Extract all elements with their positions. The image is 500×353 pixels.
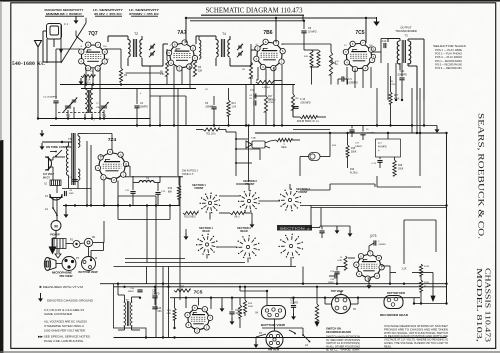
svg-text:READ.: READ. [384, 345, 392, 348]
wire head coil [316, 287, 318, 304]
svg-text:R15: R15 [351, 148, 356, 150]
wire x163 [162, 267, 164, 338]
svg-text:20MFD: 20MFD [355, 146, 363, 148]
wire 7C5 grid drop [365, 18, 367, 43]
ground mid right [349, 230, 351, 233]
svg-text:MEG: MEG [281, 147, 286, 149]
wire T6 sec leads [77, 134, 79, 137]
switch A4 [289, 330, 295, 333]
svg-text:.005 MFD: .005 MFD [300, 102, 311, 105]
microphone symbol [44, 258, 50, 271]
svg-text:7B6: 7B6 [263, 30, 272, 36]
wire right loop [420, 276, 422, 280]
resistor R19 [177, 185, 180, 199]
wire y176 bus [125, 176, 183, 178]
wire x446 long [446, 133, 448, 303]
resistor R3 [193, 60, 196, 76]
wire 7B6 pins down [257, 67, 259, 80]
wire filter [65, 206, 67, 212]
svg-text:PICKUP: PICKUP [50, 234, 60, 237]
svg-text:R19: R19 [168, 188, 173, 190]
svg-text:C2 200MFD: C2 200MFD [43, 97, 57, 99]
wire screen bus 2 [81, 88, 196, 90]
wire y226 right [320, 225, 350, 227]
svg-text:GIVEN, THE VOLTAGE IS ZERO OR: GIVEN, THE VOLTAGE IS ZERO OR TOO LOW TO [384, 342, 448, 345]
capacitor C15 [152, 295, 157, 297]
scan mottle [0, 0, 1, 1]
wire c19 [329, 275, 335, 277]
wire r18 [293, 116, 300, 118]
wire osc grid link [84, 76, 86, 85]
svg-text:SCHEMATIC DIAGRAM 110.473: SCHEMATIC DIAGRAM 110.473 [206, 6, 303, 15]
wire choke leads [133, 182, 139, 184]
wire T2 leads [127, 36, 129, 40]
ground top [75, 17, 77, 20]
wire gang horizontal [43, 61, 61, 63]
wire x87 drop [86, 141, 88, 206]
wire c23 [369, 243, 374, 246]
wire sw a4 [262, 327, 303, 329]
wire 7Z4 leads [111, 134, 113, 151]
volume control wiper [332, 61, 336, 63]
svg-text:3.3K: 3.3K [160, 74, 165, 76]
capacitor C25b [360, 132, 365, 134]
svg-text:7C5: 7C5 [355, 30, 364, 36]
wire T6 primary leads [68, 142, 70, 146]
capacitor C5 [211, 106, 216, 108]
svg-text:300K: 300K [398, 169, 404, 171]
svg-text:7C5: 7C5 [194, 290, 203, 296]
wire r15 [347, 133, 349, 145]
wire x178 long [177, 88, 179, 176]
wire x146 drop [146, 267, 148, 284]
wire c7 leads [387, 133, 389, 139]
svg-text:T4: T4 [222, 32, 226, 36]
svg-text:SELECTOR Switch: SELECTOR Switch [433, 44, 467, 48]
wire sw connects [155, 196, 157, 338]
resistor R20 [183, 211, 198, 214]
resistor R6 [256, 80, 274, 83]
resistor R17 [389, 92, 392, 104]
svg-text:SW IN POS 1: SW IN POS 1 [182, 171, 199, 173]
wire r25 [244, 287, 246, 300]
svg-text:R18: R18 [398, 165, 403, 167]
ground v7 bottom [368, 282, 370, 285]
wire loop to gang [43, 30, 47, 32]
wire y73 bus [126, 72, 164, 74]
svg-text:470K: 470K [269, 102, 275, 104]
svg-text:ALL VOLTAGES ARE DC UNLESS: ALL VOLTAGES ARE DC UNLESS [44, 320, 87, 324]
wire x100 avc drop [99, 89, 101, 119]
svg-text:TOP VIEW: TOP VIEW [331, 289, 344, 293]
wire y96 links [150, 95, 186, 97]
svg-text:MFD: MFD [69, 193, 74, 195]
svg-text:.5MFD: .5MFD [127, 291, 134, 293]
capacitor C22 [229, 311, 234, 313]
capacitor C line filter [64, 191, 66, 196]
wire y258 [125, 258, 185, 260]
gang coupling dashed line [58, 112, 104, 114]
capacitor C25 [319, 230, 324, 232]
svg-text:TRANSFORMER: TRANSFORMER [395, 29, 417, 33]
svg-text:(273: (273 [370, 234, 377, 238]
resistor R5b avc [249, 62, 252, 78]
resistor R28b [419, 264, 422, 276]
fuse S1 [50, 180, 61, 186]
IF transformer T2 secondary winding [140, 40, 142, 58]
capacitor C3 filter [72, 179, 77, 181]
svg-text:60 CY: 60 CY [43, 177, 50, 180]
svg-text:R20 1MEG: R20 1MEG [184, 217, 196, 219]
svg-text:.05MFD: .05MFD [205, 106, 214, 109]
plug P1 117V [45, 157, 52, 170]
svg-text:30 MV ≈ 455 KC: 30 MV ≈ 455 KC [94, 12, 123, 16]
svg-text:30MFD: 30MFD [140, 106, 148, 109]
wire 7A7 pins down [173, 66, 175, 126]
socket S5 top view [332, 295, 351, 314]
svg-text:.04MFD: .04MFD [378, 244, 386, 246]
wire 7B6 grid drop [275, 18, 277, 42]
wire y266 [114, 266, 297, 268]
capacitor C19 [334, 273, 336, 278]
svg-text:68K: 68K [168, 192, 173, 194]
wire T3 secondary drops [416, 66, 418, 133]
svg-text:R17: R17 [394, 95, 399, 97]
wire x168 [168, 267, 170, 338]
svg-text:41.5KΩ: 41.5KΩ [350, 172, 358, 175]
capacitor C17 [137, 289, 142, 291]
wire title tick [302, 15, 304, 21]
resistor R12 [329, 52, 332, 75]
svg-text:PAGE 2 RE: HUM BUCKING.: PAGE 2 RE: HUM BUCKING. [44, 339, 84, 343]
tuning gang C1B [101, 105, 107, 107]
junction dots ground bus [65, 204, 67, 206]
power transformer T6 secondary top [78, 136, 80, 147]
wire C8 branch [303, 21, 305, 29]
svg-text:ON TONE CONTROL: ON TONE CONTROL [46, 146, 72, 149]
svg-text:R13: R13 [232, 103, 237, 105]
resistor R21 [230, 211, 245, 214]
svg-text:XTAL: XTAL [251, 137, 257, 140]
resistor R15 [346, 145, 349, 157]
ground c24 [293, 313, 295, 316]
ground sw [185, 233, 187, 236]
svg-text:SWITCH ON: SWITCH ON [326, 327, 341, 331]
wire main B+ bus [50, 125, 412, 127]
resistor R19b [393, 160, 396, 176]
wire right drop [387, 63, 389, 100]
wire r19 [178, 176, 180, 185]
svg-text:3.3K: 3.3K [167, 313, 172, 315]
wire 7C5b leads [198, 298, 200, 306]
resistor R8 [291, 94, 294, 110]
svg-text:& B.C. TAKE SW.: & B.C. TAKE SW. [326, 349, 361, 352]
svg-text:SEARS, ROEBUCK & CO.: SEARS, ROEBUCK & CO. [477, 113, 487, 239]
wire c2 gnd [55, 85, 57, 100]
svg-text:T3: T3 [404, 34, 408, 38]
head drive coil [315, 304, 318, 322]
capacitor C25a [349, 129, 354, 131]
IF transformer T2 primary winding [128, 40, 130, 58]
wire sw risers [310, 206, 312, 226]
power transformer T6 core [71, 133, 73, 185]
wire 7Q7 pins down [85, 68, 87, 85]
wire s5 [351, 303, 359, 305]
wire jack links [66, 243, 73, 245]
svg-text:R11 1KΩ: R11 1KΩ [206, 133, 215, 136]
resistor R13 [227, 100, 230, 116]
capacitor C9 [341, 76, 343, 81]
wire right bottom drop [403, 220, 405, 264]
svg-text:470Ω: 470Ω [390, 83, 396, 86]
socket P3 pin view [62, 257, 76, 271]
capacitor C7 box [376, 139, 401, 157]
capacitor C13 [155, 192, 160, 194]
svg-text:C15: C15 [152, 291, 157, 293]
wire plug to motor [52, 198, 54, 204]
ground legend symbol [40, 295, 42, 298]
svg-text:RECORDER BOARD: RECORDER BOARD [326, 330, 351, 334]
svg-text:RECORDER HEAD: RECORDER HEAD [380, 313, 408, 317]
wire x186 [185, 96, 187, 126]
svg-text:3.3MEG: 3.3MEG [262, 87, 270, 89]
IF transformer T2 trimmers [150, 45, 154, 47]
wire c18 [336, 267, 338, 271]
wire pickup wires [270, 140, 276, 141]
resistor R10 [310, 50, 313, 67]
antenna symbol [35, 41, 42, 48]
svg-text:.01MFD: .01MFD [290, 303, 299, 305]
wire sw area [219, 212, 230, 214]
svg-text:PIN VIEW: PIN VIEW [268, 349, 280, 352]
svg-text:✱ MEASURED WITH VT.V.M: ✱ MEASURED WITH VT.V.M [39, 285, 84, 289]
tube V6 7C5 [188, 309, 209, 330]
svg-text:T2: T2 [134, 32, 138, 36]
wire plug wires [52, 157, 54, 160]
jack M1 [84, 238, 92, 246]
svg-text:POS 5 --- RECORD PHONO: POS 5 --- RECORD PHONO [435, 63, 462, 66]
wire right mid [376, 88, 378, 126]
wire C5 [213, 96, 215, 105]
wire y188 bus [62, 188, 91, 190]
svg-text:R22: R22 [180, 287, 185, 289]
socket P4 [266, 331, 283, 348]
svg-text:22K: 22K [198, 70, 203, 73]
ground v7 top [336, 227, 338, 230]
capacitor C11 [399, 77, 404, 79]
resistor R11 [317, 50, 320, 67]
junction dots bottom buses [324, 297, 326, 299]
svg-text:1.5K: 1.5K [232, 107, 237, 109]
wire diagonal gang line [61, 23, 86, 63]
resistor R14 [276, 138, 292, 141]
capacitor C16 [293, 106, 298, 108]
tuning gang C1A [65, 105, 71, 107]
wire bus y283 [100, 283, 447, 285]
resistor R2 [119, 68, 122, 82]
svg-text:FRONT: FRONT [299, 190, 308, 194]
wire v7 right [381, 265, 390, 267]
coil 7A7 plate choke [199, 40, 201, 59]
output transformer T3 [397, 41, 399, 64]
wire R13 [228, 88, 230, 100]
svg-text:POS 3 --- PLAY RADIO: POS 3 --- PLAY RADIO [435, 56, 462, 59]
svg-text:CHASSIS 110.473: CHASSIS 110.473 [484, 268, 493, 342]
switch contacts mid [235, 138, 237, 140]
wire 7C5 pins down [346, 67, 348, 85]
svg-text:.005MFD: .005MFD [348, 82, 358, 85]
loop antenna L1 [47, 24, 62, 40]
filter choke [139, 181, 154, 183]
tube V3 7B6 [257, 43, 282, 68]
IF transformer T4 primary winding [216, 40, 218, 58]
resistor R18h [300, 115, 317, 118]
wire gang to osc [103, 110, 105, 119]
socket J5 bottom view [82, 257, 96, 271]
wire C4 [136, 88, 138, 104]
power transformer T6 primary [66, 146, 68, 175]
svg-text:470Ω: 470Ω [424, 265, 430, 268]
svg-text:10MFD: 10MFD [152, 294, 160, 296]
svg-text:BOTTOM VIEW: BOTTOM VIEW [387, 292, 406, 295]
jack P2 [73, 241, 80, 248]
wire v7 leads [368, 246, 370, 252]
capacitor C2 [53, 100, 58, 102]
wire bus y297 [170, 297, 420, 299]
svg-text:+: + [378, 149, 380, 153]
svg-text:POS 6 --- RECORD MIC: POS 6 --- RECORD MIC [435, 67, 462, 70]
pickup cartridge [52, 239, 66, 249]
svg-text:POS 1 --- PLAY WIRE: POS 1 --- PLAY WIRE [435, 49, 462, 52]
rotary switch SECTION 3 REAR label band [277, 225, 312, 231]
wire x420 lower [419, 133, 421, 176]
svg-text:MINIMUM ≈ 600KC: MINIMUM ≈ 600KC [46, 12, 83, 16]
wire T4 leads [215, 36, 217, 40]
wire bus y337 [114, 337, 447, 339]
wire y187 right [377, 186, 421, 188]
capacitor C20b [152, 306, 157, 308]
capacitor C18 [334, 271, 339, 273]
svg-text:REAR: REAR [240, 229, 247, 233]
wire bus y207 [311, 207, 447, 209]
wire screen bus [60, 84, 295, 86]
svg-text:1000 OHMS PER VOLT METER: 1000 OHMS PER VOLT METER [44, 329, 85, 333]
tube V5 7Z4 [99, 153, 125, 179]
wire x377 drop [376, 176, 378, 187]
wire x91 drop [90, 145, 92, 206]
capacitor C7b [377, 160, 382, 162]
wire bus to ground right [366, 17, 377, 19]
power transformer T6 secondary bottom [78, 169, 80, 180]
wire y303 [414, 303, 447, 305]
wire x246 avc drop [245, 85, 247, 126]
svg-text:TAKE C.T.: TAKE C.T. [182, 173, 194, 176]
wire bus y20 [190, 20, 303, 22]
svg-text:REAR: REAR [202, 229, 209, 233]
wire x150 link [149, 66, 151, 88]
tube V2 7A7 [170, 44, 194, 68]
IF transformer T2 core [132, 39, 134, 57]
wire 7A7 plate link [195, 36, 197, 44]
svg-text:C10: C10 [382, 40, 387, 43]
wire bus y287 [114, 286, 447, 288]
svg-text:2.2K: 2.2K [402, 269, 407, 271]
ground avc [41, 143, 43, 146]
wire recorder box [114, 284, 147, 338]
svg-text:C 1: C 1 [64, 22, 69, 26]
ground sw2 [251, 221, 253, 224]
transformer T7 [124, 302, 126, 326]
arrow to microphone [49, 247, 57, 255]
svg-text:540-1680 KC: 540-1680 KC [12, 61, 45, 67]
ground below R1A [80, 78, 82, 81]
svg-text:POS 4 --- RECORD RADIO: POS 4 --- RECORD RADIO [435, 60, 462, 63]
svg-text:OTHERWISE NOTED USING A: OTHERWISE NOTED USING A [44, 324, 84, 328]
resistor R26 [344, 256, 347, 270]
junction dots avc bus [55, 117, 57, 119]
IF transformer T4 secondary winding [228, 40, 230, 58]
wire 7Q7 left pin [56, 48, 80, 50]
svg-text:470K: 470K [424, 282, 430, 284]
rotary switch SECTION 3 FRONT [288, 198, 291, 201]
wire sw right links [300, 189, 330, 191]
wire c22 [231, 298, 233, 311]
wire r7 [265, 85, 267, 97]
resistor R25 [243, 300, 246, 313]
plug P2 phono [50, 194, 62, 200]
recorder head socket [384, 296, 403, 309]
oscillator coil T1 [85, 89, 87, 113]
ground p4 [255, 341, 257, 344]
switch S2 tone [55, 151, 57, 153]
ground right mid [436, 126, 438, 129]
switch A1 [52, 203, 54, 208]
wire antenna feed arrow [60, 24, 62, 62]
wire c24 [293, 298, 295, 304]
svg-text:C24: C24 [290, 300, 295, 302]
wire A4 riser [302, 267, 304, 284]
page bottom edge line [0, 351, 500, 352]
resistor R24v [238, 305, 241, 318]
motor M1 [51, 221, 61, 231]
svg-text:T6: T6 [68, 137, 72, 141]
title underline [201, 14, 304, 16]
wire y125 to gnd [412, 125, 437, 127]
ground mid left [41, 130, 43, 133]
capacitor C12 [130, 191, 135, 193]
wire r27 [390, 272, 396, 274]
wire avc bus [38, 118, 150, 120]
svg-text:KΩ: KΩ [335, 63, 338, 66]
wire x150 [149, 88, 151, 126]
svg-text:68 Ω: 68 Ω [235, 216, 240, 219]
wire bus y133 [255, 132, 447, 134]
rotary switch SECTION 2 FRONT [247, 199, 250, 202]
resistor R29 [419, 280, 422, 292]
resistor R23 [173, 308, 176, 320]
wire osc leads [84, 85, 86, 90]
ground line filter [65, 211, 67, 214]
wire extra stubs top [107, 36, 109, 42]
junction dots top buses [185, 17, 187, 19]
svg-text:R16: R16 [350, 169, 355, 171]
svg-text:.2MFD: .2MFD [327, 282, 334, 284]
svg-text:POS 2 --- PLAY PHONO: POS 2 --- PLAY PHONO [435, 53, 462, 56]
wire sw stack [179, 176, 181, 300]
capacitor C10 [383, 43, 385, 48]
svg-text:3700MV ≈ 455 KC: 3700MV ≈ 455 KC [129, 12, 160, 16]
page top edge [0, 0, 500, 2]
